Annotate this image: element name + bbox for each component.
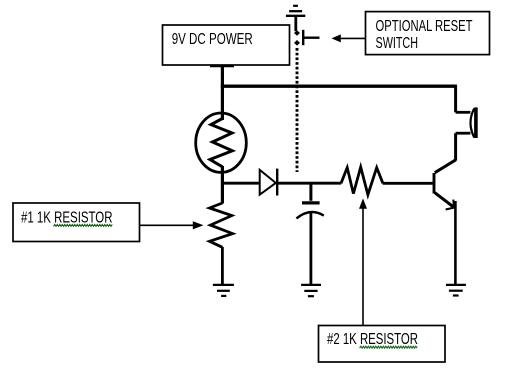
svg-text:#1 1K RESISTOR: #1 1K RESISTOR <box>21 209 113 226</box>
svg-text:OPTIONAL RESET: OPTIONAL RESET <box>376 18 473 35</box>
svg-text:#2 1K RESISTOR: #2 1K RESISTOR <box>327 331 418 348</box>
svg-text:9V DC POWER: 9V DC POWER <box>172 31 253 48</box>
svg-text:SWITCH: SWITCH <box>376 35 419 52</box>
